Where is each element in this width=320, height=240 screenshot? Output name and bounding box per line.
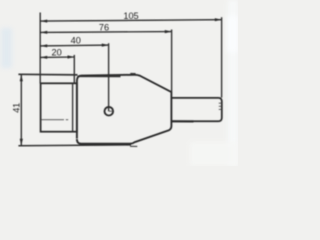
dimension line 76 bbox=[40, 31, 171, 34]
svg-text:76: 76 bbox=[99, 23, 109, 33]
body right face bbox=[170, 92, 172, 126]
svg-text:105: 105 bbox=[123, 11, 138, 21]
scan tint left edge bbox=[1, 28, 12, 68]
body bottom edge bbox=[81, 143, 130, 145]
dimension line 41 vertical bbox=[20, 75, 22, 146]
arrowhead 105 right bbox=[215, 18, 222, 21]
boot bottom-left heavier segment bbox=[172, 120, 194, 122]
svg-text:40: 40 bbox=[71, 35, 81, 45]
ferrule feature dash bbox=[66, 119, 68, 121]
arrowhead 105 left bbox=[41, 20, 47, 23]
dimension line 105 bbox=[40, 20, 221, 21]
ferrule feature line bbox=[42, 119, 65, 121]
svg-text:20: 20 bbox=[51, 47, 61, 57]
hole circle bbox=[105, 107, 114, 116]
wire: extension line 41 top continued under body edge bbox=[78, 75, 121, 77]
wire: extension line 41 bottom y=145.2 bbox=[18, 144, 131, 147]
wire: extension line 41 top y=74 bbox=[18, 73, 77, 76]
wire: extension line 20 right x=74.3 bbox=[73, 55, 75, 84]
arrowhead 41 bottom bbox=[20, 139, 23, 146]
hole center tick bbox=[109, 110, 113, 112]
wire: extension line left reference x=40 bbox=[39, 13, 41, 84]
scan tint right edge bright spot bbox=[227, 16, 238, 52]
scan tint bottom right bbox=[190, 142, 238, 166]
arrowhead 76 right bbox=[165, 30, 172, 33]
dimension line 40 bbox=[40, 44, 108, 47]
body top-left corner bbox=[77, 76, 82, 82]
boot rib 1 bbox=[219, 102, 221, 104]
wire: extension line 76 right x=171.6 bbox=[171, 30, 173, 93]
body top edge bbox=[82, 74, 134, 77]
dimension line 20 bbox=[40, 56, 74, 58]
cable boot bbox=[172, 98, 222, 121]
arrowhead 41 top bbox=[20, 75, 23, 82]
wire: artifact tick below bottom bend bbox=[130, 145, 137, 147]
connector body outline bbox=[77, 76, 172, 143]
body bottom-left corner bbox=[77, 139, 81, 144]
body left edge bbox=[76, 81, 78, 139]
wire: artifact tick above top bend bbox=[130, 73, 135, 75]
arrowhead 40 right bbox=[102, 44, 109, 47]
boot rib 3 bbox=[219, 108, 221, 110]
boot rib 2 bbox=[219, 105, 221, 107]
wire: extension line 105 right x=221.6 bbox=[221, 17, 223, 97]
arrowhead 40 left bbox=[41, 44, 47, 47]
body top taper bbox=[134, 75, 171, 92]
arrowhead 76 left bbox=[41, 31, 47, 34]
svg-text:41: 41 bbox=[12, 103, 22, 113]
arrowhead 20 left bbox=[41, 56, 47, 59]
ferrule rectangle bbox=[41, 83, 77, 131]
scan tint right edge bbox=[228, 0, 238, 166]
arrowhead 20 right bbox=[68, 55, 75, 58]
wire: extension line 40 right x=108.6 down to hole bbox=[108, 43, 110, 111]
ferrule lip line bbox=[72, 83, 74, 131]
body bottom taper bbox=[130, 126, 171, 144]
